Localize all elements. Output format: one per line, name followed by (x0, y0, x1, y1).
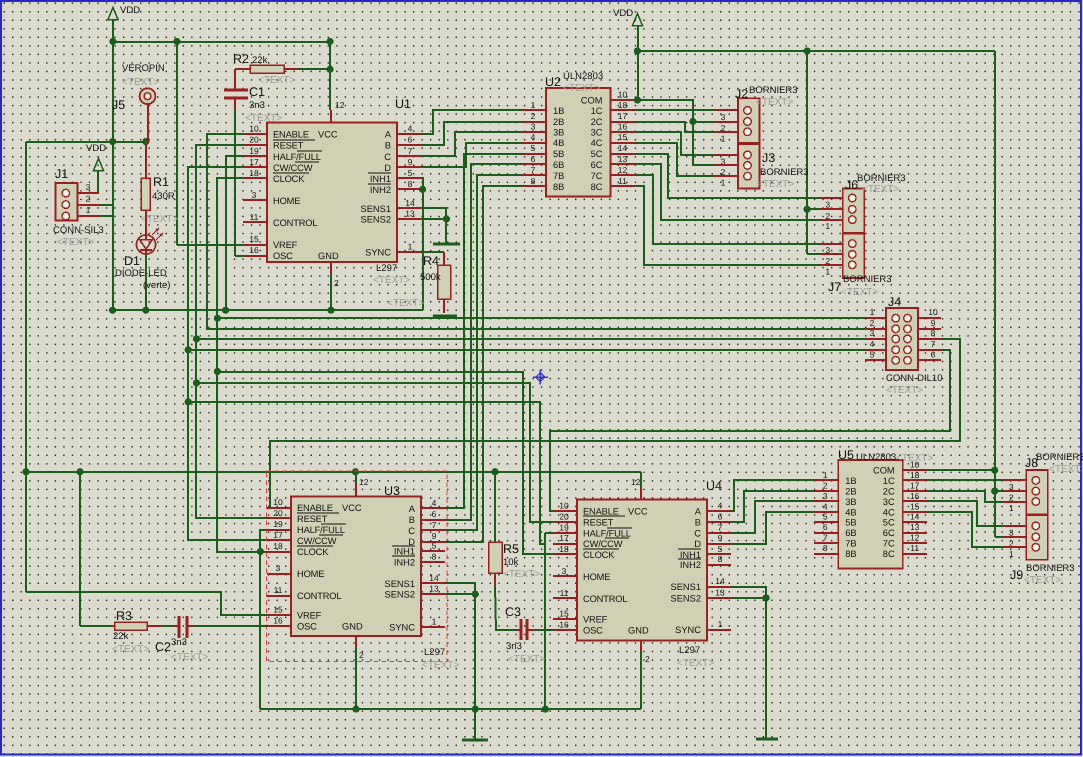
wire net CLOCK: U1 pin18 down to U3 CLOCK (217, 178, 267, 552)
svg-text:20: 20 (273, 508, 283, 518)
wire J4.3 row (196, 338, 865, 340)
svg-text:11: 11 (560, 588, 569, 598)
svg-text:6B: 6B (553, 160, 564, 170)
svg-text:3n3: 3n3 (249, 100, 265, 111)
svg-text:2: 2 (823, 480, 828, 490)
svg-text:HALF/FULL: HALF/FULL (583, 529, 631, 539)
svg-text:J9: J9 (1010, 568, 1023, 582)
svg-text:10: 10 (273, 497, 283, 507)
svg-text:20: 20 (559, 512, 569, 522)
svg-text:BORNIER3: BORNIER3 (749, 85, 798, 96)
resistor R1 (141, 178, 150, 210)
wire U1 A to U2 1B (421, 110, 522, 134)
svg-text:VCC: VCC (342, 503, 362, 513)
svg-text:7: 7 (823, 533, 828, 543)
svg-text:7B: 7B (553, 171, 564, 181)
svg-text:CONN-SIL3: CONN-SIL3 (53, 225, 104, 236)
svg-text:<TEXT>: <TEXT> (422, 660, 459, 671)
wire VDD drop to U1 VCC (330, 42, 345, 122)
svg-text:COM: COM (581, 96, 603, 106)
svg-text:10: 10 (559, 501, 569, 511)
wire U3 GND to bottom rail (356, 636, 364, 709)
wire U3 B to U2 6B (445, 164, 522, 520)
svg-text:ULN2803: ULN2803 (563, 71, 603, 82)
wire U5 4C to J9 pin1 (927, 512, 1003, 547)
junction CLOCK/J4.1 (214, 315, 221, 322)
svg-text:430R: 430R (152, 191, 175, 202)
svg-text:1: 1 (86, 205, 91, 215)
junction bottom rail U3 GND (352, 706, 359, 713)
wire D1 to GND rail (145, 256, 147, 310)
svg-text:10k: 10k (503, 557, 519, 568)
connector J3 BORNIER3 (714, 144, 760, 189)
svg-text:CONTROL: CONTROL (297, 591, 341, 601)
wire U1 D to U2 4B (421, 143, 522, 167)
svg-text:<TEXT>: <TEXT> (862, 184, 899, 195)
svg-text:13: 13 (405, 209, 415, 219)
junction VDD rail U3 VCC (352, 468, 359, 475)
svg-text:VREF: VREF (297, 611, 322, 621)
svg-text:6: 6 (931, 349, 936, 359)
svg-text:CONN-DIL10: CONN-DIL10 (886, 373, 943, 384)
svg-text:8C: 8C (591, 182, 603, 192)
svg-text:CONTROL: CONTROL (583, 594, 627, 604)
svg-text:<TEXT>: <TEXT> (122, 77, 159, 88)
svg-text:7: 7 (718, 523, 723, 533)
svg-text:SENS1: SENS1 (361, 204, 392, 214)
junction U4 SENS2 (762, 594, 769, 601)
svg-text:VCC: VCC (318, 130, 338, 140)
svg-text:15: 15 (273, 605, 283, 615)
wire VDD to U3 VREF (26, 592, 267, 615)
junction x994 U5 COM (991, 467, 998, 474)
svg-text:CW/CCW: CW/CCW (583, 539, 623, 549)
svg-text:BORNIER3: BORNIER3 (1026, 563, 1075, 574)
wire U2 6C to J6 pin1 (635, 164, 819, 220)
wire C3 to U4 OSC (535, 629, 553, 631)
wire U2 4C to J3 pin1 (635, 143, 714, 176)
svg-text:6C: 6C (883, 528, 895, 538)
wire VDD left vertical x26 (25, 142, 27, 592)
svg-text:14: 14 (429, 573, 439, 583)
svg-text:U5: U5 (838, 448, 854, 462)
wire U2 8C to J7 pin1 (635, 186, 819, 265)
connector J2 BORNIER3 (714, 98, 760, 143)
wire U4 A to U5 1B (731, 480, 814, 511)
junction x994 J8 pin2 (991, 488, 998, 495)
svg-text:5B: 5B (553, 149, 564, 159)
svg-text:8C: 8C (883, 549, 895, 559)
svg-text:18: 18 (559, 544, 569, 554)
svg-text:8B: 8B (553, 182, 564, 192)
wire U1 C to U2 3B (421, 132, 522, 156)
svg-text:GND: GND (342, 622, 363, 632)
junction bottom rail sens ground (472, 706, 479, 713)
wire U2 7C to J7 pin3 (635, 175, 819, 244)
svg-text:SENS1: SENS1 (385, 579, 416, 589)
wire net RESET: U1 pin20 down to U3 RESET (196, 145, 267, 518)
svg-text:6: 6 (531, 154, 536, 164)
svg-text:<TEXT>: <TEXT> (245, 113, 282, 124)
svg-text:3: 3 (252, 190, 257, 200)
junction VDD bus / VREF drop (173, 38, 180, 45)
svg-text:U1: U1 (395, 97, 411, 111)
svg-text:CW/CCW: CW/CCW (297, 536, 337, 546)
svg-text:10: 10 (618, 90, 628, 100)
wire net ENABLE: U1 pin10 to J4.2 (207, 134, 865, 329)
resistor R3 22k (80, 622, 162, 630)
svg-text:RESET: RESET (583, 518, 614, 528)
svg-text:16: 16 (618, 122, 628, 132)
svg-text:3: 3 (823, 491, 828, 501)
svg-text:VDD: VDD (120, 5, 140, 16)
wire U4 GND to bottom rail (641, 640, 650, 709)
wire U2 3C to J3 pin3 (635, 132, 714, 155)
wire R1 to D1 (145, 210, 147, 235)
svg-text:3: 3 (86, 182, 91, 192)
svg-text:J5: J5 (112, 98, 125, 112)
junction RESET/J4.3 (193, 335, 200, 342)
svg-text:15: 15 (559, 609, 569, 619)
wire U1 INH1/INH2 tie to GND rail (421, 178, 423, 310)
svg-text:1B: 1B (845, 476, 856, 486)
svg-text:J7: J7 (828, 280, 841, 294)
svg-text:<TEXT>: <TEXT> (677, 658, 714, 669)
junction GND rail D1 (142, 307, 149, 314)
svg-text:12: 12 (359, 477, 369, 487)
svg-text:<TEXT>: <TEXT> (1024, 575, 1061, 586)
svg-text:5: 5 (531, 143, 536, 153)
svg-text:16: 16 (559, 619, 569, 629)
svg-text:5: 5 (823, 512, 828, 522)
svg-text:500k: 500k (420, 272, 441, 283)
svg-text:VDD: VDD (86, 143, 106, 154)
svg-text:<TEXT>: <TEXT> (508, 654, 545, 665)
wire U4 VCC to VDD rail (631, 472, 641, 500)
svg-text:3B: 3B (845, 497, 856, 507)
wire RESET branch to U4 (196, 383, 553, 522)
wire VDD rail y472 (26, 471, 641, 473)
ground bar bottom left (462, 739, 488, 742)
svg-text:6: 6 (718, 512, 723, 522)
wire U4 D to U5 4B (731, 512, 814, 544)
capacitor C1 3n3 (224, 69, 248, 110)
svg-text:<TEXT>: <TEXT> (757, 179, 794, 190)
svg-text:GND: GND (628, 625, 649, 635)
svg-text:J2: J2 (735, 87, 748, 101)
svg-text:C2: C2 (155, 640, 171, 654)
svg-text:INH1: INH1 (394, 547, 415, 557)
svg-text:19: 19 (559, 523, 569, 533)
svg-text:C1: C1 (249, 85, 265, 99)
wire U3 SENS tie to ground (445, 583, 475, 740)
svg-text:22k: 22k (113, 631, 129, 642)
wire VDD drop x807 to J6/J7 (807, 51, 819, 254)
svg-text:OSC: OSC (273, 251, 293, 261)
wire VDD drop x994 to U5/J8/J9 (995, 51, 1003, 537)
svg-text:INH2: INH2 (394, 557, 415, 567)
svg-text:20: 20 (249, 135, 259, 145)
svg-text:5B: 5B (845, 518, 856, 528)
svg-text:4B: 4B (845, 507, 856, 517)
svg-text:12: 12 (910, 533, 920, 543)
svg-text:CLOCK: CLOCK (273, 174, 305, 184)
svg-text:HOME: HOME (273, 196, 300, 206)
svg-text:13: 13 (429, 584, 439, 594)
svg-text:14: 14 (618, 143, 628, 153)
junction J2 pin2 branch (689, 118, 696, 125)
svg-text:11: 11 (618, 176, 627, 186)
svg-text:VCC: VCC (628, 507, 648, 517)
wire U4 HALF/FULL stub link (545, 532, 553, 534)
svg-text:ENABLE: ENABLE (583, 507, 619, 517)
svg-text:C: C (408, 526, 415, 536)
svg-text:<TEXT>: <TEXT> (841, 287, 878, 298)
junction VDD y51 x637 (634, 47, 641, 54)
svg-text:GND: GND (318, 251, 339, 261)
svg-text:15: 15 (249, 234, 259, 244)
wire J5 to R1 (146, 104, 148, 178)
svg-text:17: 17 (618, 111, 628, 121)
svg-text:ULN2803: ULN2803 (856, 452, 896, 463)
wire J1 pin1 to GND rail (99, 215, 113, 217)
capacitor C3 3n3 (516, 619, 535, 640)
svg-text:18: 18 (618, 100, 628, 110)
svg-text:9: 9 (432, 531, 437, 541)
svg-text:<TEXT>: <TEXT> (896, 453, 933, 464)
svg-text:HOME: HOME (583, 572, 610, 582)
svg-text:8: 8 (718, 554, 723, 564)
wire C1 to U1 OSC (235, 110, 243, 256)
svg-text:CONTROL: CONTROL (273, 218, 317, 228)
junction RESET branch y383 (193, 379, 200, 386)
svg-text:7: 7 (531, 165, 536, 175)
svg-text:<TEXT>: <TEXT> (57, 237, 94, 248)
svg-text:HOME: HOME (297, 569, 324, 579)
wire U2 2C to J2 pin1 (635, 122, 714, 132)
ground bar U1 SENS (433, 243, 460, 246)
junction CW branch y402 (185, 398, 192, 405)
svg-text:<TEXT>: <TEXT> (886, 385, 923, 396)
svg-text:16: 16 (249, 245, 259, 255)
connector J7 BORNIER3 (819, 234, 864, 279)
op-amp U5 ULN2803 driver (814, 460, 927, 569)
wire R2 to VDD drop (298, 68, 330, 70)
svg-text:4C: 4C (591, 138, 603, 148)
wire U4 B to U5 2B (731, 491, 814, 522)
svg-text:ENABLE: ENABLE (273, 130, 309, 140)
svg-text:<TEXT>: <TEXT> (387, 298, 424, 309)
svg-text:D: D (384, 163, 391, 173)
svg-text:9: 9 (408, 157, 413, 167)
svg-text:VREF: VREF (273, 240, 298, 250)
wire U5 1C to J8 pin3 (927, 479, 1003, 481)
power symbol VDD (top left) (108, 5, 140, 42)
svg-text:A: A (385, 130, 392, 140)
wire COM to J2/J3 pin2 vertical (638, 100, 714, 165)
svg-text:VEROPIN: VEROPIN (122, 63, 165, 74)
diode D1 DIODE-LED (136, 228, 163, 256)
svg-text:R3: R3 (116, 609, 132, 623)
wire U3 A to U2 5B (445, 154, 522, 508)
junction x113/R1 feed (109, 138, 116, 145)
wire U1 B to U2 2B (421, 122, 522, 145)
svg-text:BORNIER3: BORNIER3 (843, 274, 892, 285)
svg-text:7C: 7C (591, 171, 603, 181)
svg-text:2C: 2C (591, 117, 603, 127)
svg-text:ENABLE: ENABLE (297, 503, 333, 513)
svg-text:8: 8 (931, 328, 936, 338)
svg-text:SENS2: SENS2 (361, 215, 392, 225)
svg-text:13: 13 (715, 587, 725, 597)
resistor R5 10k (489, 472, 503, 586)
junction VDD rail x80 (76, 468, 83, 475)
connector J1 CONN-SIL3 (56, 182, 100, 220)
wire U4 C to U5 3B (731, 501, 814, 533)
svg-text:11: 11 (274, 585, 283, 595)
svg-text:J3: J3 (762, 151, 775, 165)
svg-text:18: 18 (273, 541, 283, 551)
svg-text:1: 1 (408, 242, 413, 252)
svg-text:L297: L297 (376, 263, 397, 274)
wire U1 GND to rail (331, 262, 339, 310)
wire CW branch to U4 HALF/FULL and bottom rail (188, 402, 545, 544)
svg-text:OSC: OSC (583, 625, 603, 635)
svg-text:7: 7 (432, 520, 437, 530)
wire VDD drop to U1 VREF x177 (177, 42, 243, 245)
wire U1 SENS1/SENS2 tie (421, 208, 446, 243)
svg-text:14: 14 (910, 512, 920, 522)
svg-text:R2: R2 (233, 52, 249, 66)
svg-text:4: 4 (870, 339, 875, 349)
svg-text:DIODE-LED: DIODE-LED (115, 268, 167, 279)
svg-text:8: 8 (823, 543, 828, 553)
svg-text:3n3: 3n3 (506, 641, 522, 652)
svg-text:BORNIER3: BORNIER3 (1036, 452, 1083, 463)
svg-text:3: 3 (721, 112, 726, 122)
svg-text:13: 13 (910, 522, 920, 532)
svg-text:<TEXT>: <TEXT> (373, 275, 410, 286)
svg-text:6C: 6C (591, 160, 603, 170)
svg-text:INH1: INH1 (370, 174, 391, 184)
svg-text:5C: 5C (883, 518, 895, 528)
svg-text:R1: R1 (153, 175, 169, 189)
svg-text:12: 12 (631, 477, 641, 487)
svg-text:14: 14 (715, 576, 725, 586)
svg-text:U4: U4 (706, 479, 722, 493)
svg-text:7: 7 (931, 339, 936, 349)
junction CLOCK branch y371 (214, 368, 221, 375)
svg-text:3: 3 (276, 563, 281, 573)
junction INH2 (419, 186, 426, 193)
junction SENS2 (443, 215, 450, 222)
connector J5 VEROPIN (140, 88, 156, 104)
svg-text:6B: 6B (845, 528, 856, 538)
svg-text:3C: 3C (591, 128, 603, 138)
junction VDD bus / x113 (109, 38, 116, 45)
svg-text:SYNC: SYNC (365, 248, 391, 258)
svg-text:8: 8 (432, 551, 437, 561)
svg-text:15: 15 (618, 132, 628, 142)
svg-text:SENS1: SENS1 (671, 582, 702, 592)
svg-text:D1: D1 (124, 254, 140, 268)
wire U1 SYNC to R4 (421, 251, 444, 253)
svg-text:J4: J4 (888, 295, 901, 309)
svg-text:1C: 1C (883, 476, 895, 486)
svg-text:8: 8 (531, 176, 536, 186)
junction R2/VDD (326, 66, 333, 73)
wire U2 1C to J2 pin3 (635, 109, 714, 111)
svg-text:16: 16 (273, 616, 283, 626)
svg-text:4: 4 (408, 124, 413, 134)
svg-text:3B: 3B (553, 128, 564, 138)
svg-text:INH2: INH2 (680, 560, 701, 570)
svg-text:1: 1 (1009, 549, 1014, 559)
connector J4 CONN-DIL10 (865, 307, 941, 370)
svg-text:5: 5 (408, 168, 413, 178)
svg-text:A: A (409, 504, 416, 514)
wire U2 COM to VDD (635, 99, 638, 101)
junction R1 lead / VDD feed (142, 138, 149, 145)
svg-text:17: 17 (249, 157, 259, 167)
svg-text:<TEXT>: <TEXT> (171, 652, 208, 663)
wire J4.8 to U3 ENABLE (267, 339, 960, 508)
svg-text:(verte): (verte) (143, 280, 170, 291)
svg-text:CW/CCW: CW/CCW (273, 163, 313, 173)
svg-text:6: 6 (823, 522, 828, 532)
svg-text:C: C (384, 152, 391, 162)
svg-text:2B: 2B (845, 486, 856, 496)
svg-text:6: 6 (408, 135, 413, 145)
resistor R2 22k (235, 65, 298, 73)
svg-text:<TEXT>: <TEXT> (503, 569, 540, 580)
svg-text:8: 8 (408, 179, 413, 189)
svg-text:7B: 7B (845, 539, 856, 549)
svg-text:5: 5 (870, 349, 875, 359)
svg-text:C3: C3 (505, 605, 521, 619)
selection box around U3 (dashed) (267, 471, 448, 662)
wire J4.4 row (188, 349, 865, 351)
svg-text:11: 11 (250, 212, 259, 222)
origin cursor marker (533, 370, 548, 385)
svg-text:B: B (409, 515, 415, 525)
wire VDD x80 to R3 (79, 472, 81, 626)
svg-text:1: 1 (718, 619, 723, 629)
wire R5 to C3/OSC (495, 586, 516, 630)
wire x994 J8 pin2 branch (995, 490, 1003, 492)
svg-text:4C: 4C (883, 507, 895, 517)
svg-text:3: 3 (870, 328, 875, 338)
svg-text:U3: U3 (384, 484, 400, 498)
svg-text:RESET: RESET (297, 514, 328, 524)
connector J8 BORNIER3 (1003, 470, 1048, 515)
svg-text:6: 6 (432, 509, 437, 519)
svg-text:SYNC: SYNC (675, 625, 701, 635)
svg-text:10: 10 (928, 307, 938, 317)
svg-text:INH2: INH2 (370, 185, 391, 195)
op-amp U4 L297 stepper controller (553, 500, 731, 641)
junction U3 SENS2 (472, 591, 479, 598)
svg-text:12: 12 (618, 165, 628, 175)
svg-text:VREF: VREF (583, 615, 608, 625)
svg-text:16: 16 (910, 491, 920, 501)
svg-text:4B: 4B (553, 138, 564, 148)
wire VDD top bus (113, 41, 330, 43)
svg-text:D: D (694, 539, 701, 549)
resistor R4 500k (438, 252, 451, 313)
svg-text:1C: 1C (591, 106, 603, 116)
svg-text:BORNIER3: BORNIER3 (857, 173, 906, 184)
